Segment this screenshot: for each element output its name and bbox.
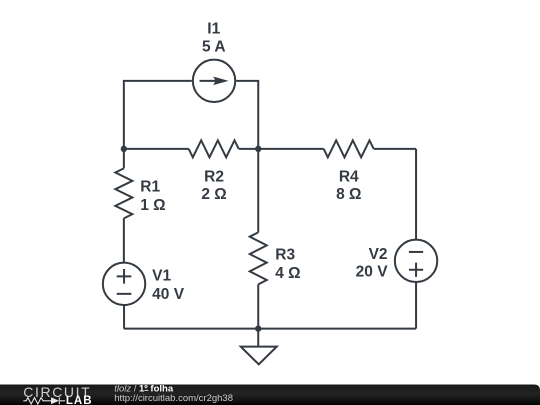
svg-text:20 V: 20 V [356,264,389,281]
svg-text:I1: I1 [207,21,220,38]
svg-text:R4: R4 [339,169,359,186]
svg-text:V1: V1 [152,268,171,285]
svg-text:R2: R2 [204,169,224,186]
svg-text:4 Ω: 4 Ω [275,265,300,282]
svg-text:R1: R1 [140,179,160,196]
svg-text:40 V: 40 V [152,286,185,303]
svg-text:V2: V2 [369,246,388,263]
svg-text:http://circuitlab.com/cr2gh38: http://circuitlab.com/cr2gh38 [114,393,233,404]
svg-text:LAB: LAB [66,395,93,405]
svg-text:R3: R3 [275,247,295,264]
svg-text:5 A: 5 A [202,39,226,56]
svg-text:8 Ω: 8 Ω [336,186,361,203]
svg-text:2 Ω: 2 Ω [201,186,226,203]
svg-text:1 Ω: 1 Ω [140,197,165,214]
